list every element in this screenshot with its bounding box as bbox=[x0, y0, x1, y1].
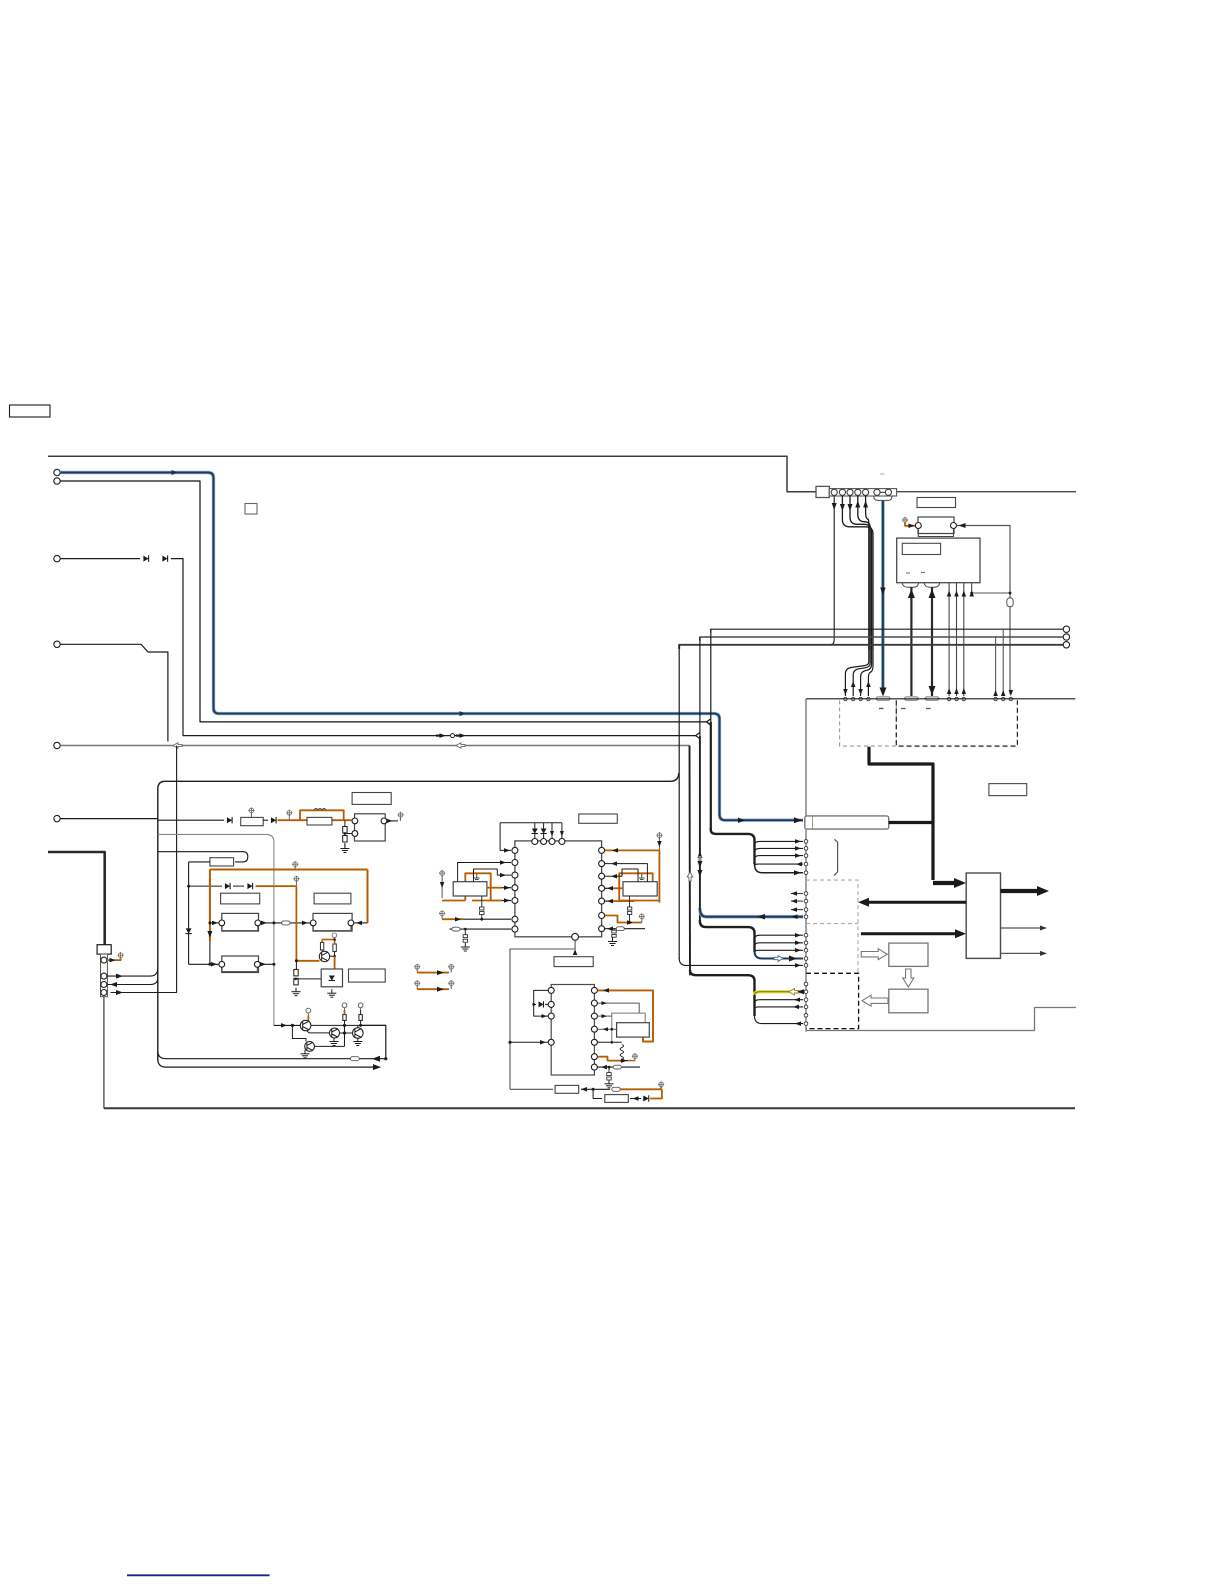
wire CN3 pin3 to block border bbox=[107, 978, 158, 985]
U10 bottom cup pads bbox=[902, 583, 919, 588]
wire R6 right segment bbox=[581, 1088, 610, 1090]
transistor Q1 bbox=[300, 1020, 311, 1031]
capacitor stack below K2 input bbox=[344, 820, 346, 826]
down arrow at bottom of cup2 wire bbox=[929, 686, 936, 695]
opto U5 inner gray loop bbox=[612, 1013, 645, 1043]
IC U10 big box bbox=[897, 538, 980, 583]
wire: fan1 thick bus bbox=[711, 828, 755, 864]
wire: vertical from line B down to pad bbox=[995, 637, 997, 696]
small box SB2 bbox=[889, 989, 928, 1013]
wire: net from J1-5 long horizontal bbox=[60, 745, 689, 747]
power + orange above Q1 bbox=[306, 1008, 311, 1013]
U10 pin wire x=956.5 bbox=[956, 583, 958, 696]
capacitor below U2 bbox=[481, 896, 483, 907]
power above R5 bbox=[358, 1003, 363, 1008]
connector J1 pin 1 bbox=[54, 469, 60, 475]
opto U2 orange loop bbox=[465, 873, 490, 900]
U10 inner label rect bbox=[902, 543, 940, 554]
coil below U5 bbox=[620, 1045, 624, 1060]
bracket right of fan1 bbox=[834, 839, 838, 875]
orange loop left vertical bbox=[209, 870, 211, 942]
title block box top-left bbox=[10, 405, 51, 417]
wire: vertical from line A down to pad bbox=[1002, 629, 1004, 696]
label box above U1 bbox=[579, 814, 618, 823]
fan3 wire 4 bottom bbox=[755, 1016, 804, 1024]
outline arrow out of SB2 left bbox=[862, 995, 888, 1006]
thick wire into U10 cup 2 bbox=[931, 587, 933, 696]
wire: CN2 pin4 from bus bbox=[858, 496, 870, 650]
thick arrow out of U11 right bbox=[1001, 889, 1039, 893]
U4 left link wires pins1-3 bbox=[534, 990, 548, 1016]
Q4 collector stub to rail bbox=[357, 1025, 359, 1027]
orange net U4 pin R1 bbox=[598, 990, 653, 1041]
orange bottom wire into U2 loop bbox=[442, 900, 465, 902]
coil marks on bypass bbox=[314, 808, 326, 810]
resistor RV1 above Q5 bbox=[320, 943, 323, 951]
big arrow into tall box bbox=[933, 881, 957, 885]
ground Q3 bbox=[330, 1038, 339, 1046]
ferrite on bottom wire bbox=[612, 1087, 621, 1091]
resistor R5 vertical bbox=[359, 1015, 362, 1021]
diode D7 on rail bbox=[185, 928, 191, 933]
arrow on CN2 pin4 wire bbox=[855, 501, 860, 508]
label box NET NAME mid-right bbox=[805, 816, 889, 829]
wire: solid top line of dashed block bbox=[806, 698, 1075, 700]
jumper wire JP1 bbox=[414, 964, 420, 970]
thick arrow from DB3 into U11 bbox=[861, 932, 957, 935]
wire: blue branch to spine bbox=[700, 908, 803, 917]
tiny gray dash artifact bbox=[880, 473, 885, 475]
connector circle line B bbox=[1063, 634, 1069, 640]
resistor R7 bbox=[605, 1095, 629, 1103]
wire: left drop into U1 pin L1 bbox=[500, 823, 511, 851]
ground Q4 bbox=[353, 1038, 362, 1046]
arrow on blue net before label box bbox=[738, 817, 745, 823]
pads on dashed box for fan wires bbox=[844, 697, 847, 700]
wire with ferrite to pin L7 bbox=[449, 928, 511, 930]
wire: fan3 thick bus (from J1-5 net) bbox=[690, 970, 755, 1016]
connector J1 pin 5 bbox=[54, 742, 60, 748]
wire: left rail vertical bbox=[188, 862, 190, 964]
power on orange loop top bbox=[292, 861, 298, 867]
diode D8 bbox=[643, 1095, 649, 1101]
wire: vertical 1010 lower part with bead bbox=[1009, 593, 1011, 694]
connector CN2 pin 5 bbox=[863, 489, 869, 495]
label box above K2 bbox=[352, 793, 391, 805]
wire: bus C vertical bbox=[678, 645, 680, 959]
wire: block bottom wire 1 bbox=[158, 1051, 386, 1059]
connector CN2 body bbox=[829, 489, 896, 496]
arrow pair with node on J1-3 net bbox=[440, 733, 447, 738]
power symbol on orange row1 bbox=[286, 810, 292, 816]
diode D1 on J1-3 net bbox=[143, 555, 148, 561]
resistor RV2 above Q5 collector bbox=[333, 944, 336, 952]
power symbol above R1 bbox=[248, 807, 254, 813]
wire: branch from J1-5 down to connector CN3 pin4 bbox=[111, 746, 177, 993]
wire: CN2 pin5 from bus bbox=[866, 496, 869, 650]
orange riser and power bbox=[660, 1087, 662, 1089]
optocoupler K3 label bbox=[221, 893, 260, 904]
power + orange wire to pin L6 bbox=[439, 910, 445, 916]
K3 pins bbox=[219, 920, 225, 926]
thick arrow from U11 into DB3 bbox=[866, 901, 966, 904]
fan3 wire 1 yellow bbox=[755, 992, 804, 995]
U1 bottom pin bbox=[572, 933, 579, 940]
wire: U10 pin 971.7 jog to 1010 vertical bbox=[972, 592, 1010, 594]
dashed box DB2 (black) bbox=[896, 700, 1017, 746]
connector CN2 pin 4 bbox=[855, 489, 861, 495]
pad 1010 on dashed box bbox=[1009, 697, 1012, 700]
spine stub arrows (3) bbox=[791, 893, 803, 895]
wire: block top edge bbox=[158, 773, 679, 789]
wire: K2 output with power bbox=[387, 820, 398, 822]
IC U1 body bbox=[515, 841, 602, 937]
wire: CN2 pin3 down joins bus bbox=[850, 496, 872, 650]
symbols on blue fan2 wire bbox=[774, 956, 783, 962]
outline arrow into SB1 bbox=[861, 949, 887, 960]
orange wire into K1 left pin bbox=[905, 523, 915, 526]
wire K5 out to gray boundary bbox=[260, 963, 274, 965]
wire Q3 to Q4 base bbox=[340, 1032, 353, 1034]
wire K2 pin2 to cap stack bbox=[345, 833, 352, 835]
wire: J1-5 net turns down at right bbox=[689, 746, 692, 976]
U4 left pins bbox=[548, 987, 554, 993]
diode into U4 pin L2 bbox=[534, 1003, 536, 1005]
arrow on CN2 pin2 wire bbox=[840, 504, 845, 511]
capacitor + ground below pin L7 wire bbox=[464, 929, 466, 935]
fan2 wire 1 bbox=[755, 935, 804, 939]
label box right of DZ1 bbox=[349, 969, 386, 982]
wire: R1 to D4 bbox=[263, 819, 268, 821]
symbols on yellow wire bbox=[789, 988, 799, 995]
orange from D8 up to power riser bbox=[650, 1089, 662, 1098]
wire: collector rail through transistors bbox=[311, 1024, 386, 1026]
outline arrow down SB1 to SB2 bbox=[903, 969, 914, 987]
link bar between CN2 pins 6-7 bbox=[880, 491, 885, 493]
arrow on CN3 pin2 wire bbox=[116, 974, 123, 979]
orange path pin R6 to power bbox=[605, 916, 634, 923]
orange loop right vertical bbox=[658, 850, 660, 903]
arrow and pad at bottom of U10 pin wire x=949.1 bbox=[947, 688, 952, 694]
wire U4 pin R7 with ferrite bbox=[598, 1066, 640, 1068]
connector CN2 pin 3 bbox=[847, 489, 853, 495]
vertical rail R4 down to Q2 wire bbox=[344, 1020, 346, 1046]
wire K3 out to K4 bbox=[261, 922, 310, 924]
connector CN3 pin 1 bbox=[101, 957, 107, 963]
relay K1 left pin bbox=[915, 523, 921, 529]
resistor R4 vertical bbox=[343, 1015, 346, 1021]
wire U4 pin R4 bbox=[598, 1028, 617, 1030]
resistor R3 row2 bbox=[210, 858, 234, 866]
arrow on 1010 vertical at dashed box bbox=[1009, 690, 1014, 696]
connector CN2 pin 2 bbox=[839, 489, 845, 495]
wire: row1 net inside block bbox=[158, 819, 224, 821]
arrow on CN3 pin1 wire bbox=[110, 958, 116, 963]
U1 left pins bbox=[512, 847, 518, 853]
wire: line B to connector circle bbox=[700, 637, 1063, 641]
wire: U1 bottom pin down-left bbox=[510, 940, 575, 1089]
mid arrow on blue CN2 net bbox=[880, 588, 886, 596]
wire Q1 base junction down to Q2 bbox=[292, 1025, 306, 1041]
arrow at K1 right pin bbox=[959, 523, 966, 528]
connector CN3 pin 2 bbox=[101, 973, 107, 979]
orange wire to Q5 base bbox=[296, 960, 319, 962]
wire: net from J1-6 to block border bbox=[60, 818, 158, 820]
fan1 wire 2 bbox=[755, 848, 804, 852]
wire Q1 emitter to Q3 base bbox=[307, 1030, 330, 1033]
power symbol left of U2 bbox=[439, 870, 445, 876]
wire: row2 net bbox=[158, 852, 248, 862]
arrow on bottom wire 1 bbox=[372, 1056, 380, 1062]
connector CN2 pin 7 bbox=[885, 489, 891, 495]
arrows on blue branch bbox=[757, 914, 765, 920]
wire with ferrite pin R7 bbox=[605, 928, 645, 930]
arrow up into U10 cup1 bbox=[908, 589, 915, 598]
relay K1 right pin bbox=[951, 523, 957, 529]
spine pins fan2 bbox=[804, 933, 808, 937]
wire: CN2 pin1 down to line C bbox=[831, 496, 834, 645]
diode D2 on J1-3 net bbox=[162, 555, 167, 561]
arrow on CN2 pin3 wire bbox=[848, 504, 853, 511]
fan2 wire 2 bbox=[755, 943, 804, 946]
wire: bus A vertical (line A left end down) bbox=[710, 629, 712, 722]
IC U4 body bbox=[551, 985, 594, 1076]
arrow glyphs on bus B bbox=[697, 851, 702, 858]
K4 bypass wire under body bbox=[313, 926, 351, 931]
arrow on CN2 pin5 wire bbox=[863, 501, 868, 508]
orange step U4 pin R6 bbox=[598, 1057, 621, 1061]
U4 right pins bbox=[591, 987, 597, 993]
wire rail into K5 bbox=[189, 963, 219, 965]
wire Q2 collector to vertical rail bbox=[314, 1045, 344, 1047]
wire: net from J1-3 bbox=[60, 558, 140, 560]
orange loop bottom right bbox=[619, 900, 659, 902]
pad for blue net on dashed box bbox=[876, 697, 890, 700]
orange stub U2 right to pin L4 bbox=[487, 887, 502, 889]
label box left separator bbox=[812, 817, 814, 829]
transistor Q5 bbox=[319, 951, 329, 961]
tiny ground inside U3 top bbox=[639, 874, 645, 880]
fan3 wire 2 bbox=[755, 1000, 804, 1003]
wire: line A to connector circle bbox=[711, 629, 1063, 633]
orange wire to power riser bbox=[621, 1088, 662, 1090]
orange stub to pin R4 bbox=[612, 887, 623, 889]
resistor R1 row1 bbox=[241, 817, 264, 825]
label box far top right bbox=[989, 784, 1027, 796]
bracket under CN2 pins 6-7 bbox=[874, 496, 892, 500]
ground under capacitor stack bbox=[340, 845, 349, 853]
ground under DZ1 bbox=[327, 989, 336, 997]
connector CN2 pin 1 bbox=[831, 489, 837, 495]
diode box DZ1 bbox=[321, 969, 342, 987]
wire: riser from bottom wire 1 to Q4 collector bbox=[362, 1025, 386, 1058]
wire: bus B vertical bbox=[699, 637, 701, 736]
orange loop right vertical bbox=[367, 870, 369, 923]
wire U4 pin R2 to loop bbox=[598, 1003, 640, 1013]
thick link from DB1 down-right to label box line bbox=[869, 747, 933, 880]
arrow on blue net at label box bbox=[794, 817, 802, 823]
arrow on blue net top segment bbox=[172, 470, 179, 475]
dashed box DB4 black bbox=[806, 973, 859, 1028]
orange bypass loop over R2 bbox=[300, 810, 344, 820]
U10 pin wire x=949.1 bbox=[948, 583, 950, 696]
U10 pin wire x=963.8 bbox=[963, 583, 965, 696]
wire: bus C to spine bbox=[679, 958, 803, 965]
label box above relay K1 bbox=[917, 498, 956, 508]
node: small square reference box bbox=[245, 504, 257, 515]
resistor R6 bbox=[555, 1085, 579, 1093]
fan2 wire 3 bbox=[755, 950, 804, 953]
rail branch with diodes D5 D6 bbox=[187, 885, 190, 888]
orange stub to pin R5 bbox=[612, 900, 634, 902]
wire: spine bottom gray outline bbox=[806, 1008, 1076, 1031]
orange top bar with power bbox=[322, 939, 335, 941]
diode D4 row1 bbox=[271, 817, 276, 823]
wire: gray boundary into Q1 base bbox=[274, 1024, 301, 1026]
connector CN3 body strip bbox=[101, 954, 108, 997]
IC U11 tall box bbox=[966, 873, 1000, 958]
K5 pins bbox=[219, 961, 225, 967]
wire U4 pin R5 to coil bbox=[598, 1041, 622, 1043]
spine pins fan3 bbox=[804, 982, 808, 986]
ferrite bead on 1010 vertical bbox=[1007, 598, 1013, 607]
power symbol at CN3 pin1 bbox=[118, 952, 124, 958]
arrow on K1 input bbox=[909, 524, 915, 529]
wire: K1 right pin to vertical bbox=[957, 526, 1010, 594]
wire below orange corner with caps bbox=[295, 961, 297, 970]
orange wire Q5 collector to zener box bbox=[330, 955, 335, 957]
wire orange right vertical into K4 right pin bbox=[354, 922, 368, 924]
dashed box DB1 (gray) bbox=[840, 700, 897, 746]
branch to K3 left pin bbox=[208, 921, 211, 924]
U1 top pins bbox=[532, 839, 538, 845]
orange big loop top bbox=[210, 869, 368, 871]
wire: block left edge bbox=[157, 789, 159, 1061]
wire: fan2 thick bus bbox=[700, 920, 755, 952]
wire: R3 to rail bbox=[189, 861, 210, 863]
wire: top line after connector CN2 bbox=[897, 491, 1076, 493]
wire: block bottom wire 2 bbox=[158, 1059, 374, 1067]
capacitor below U3 bbox=[629, 896, 631, 907]
wire CN3 pin2 to block border bbox=[107, 968, 158, 976]
wire: orange left vertical continues black to A2 bbox=[209, 941, 211, 964]
thick wire into U10 cup 1 bbox=[910, 587, 912, 696]
spine pins fan1 bbox=[804, 840, 808, 844]
optocoupler K4 body bbox=[313, 913, 352, 931]
wire: spine vertical board edge bbox=[805, 699, 807, 1032]
fan1 wire 3 bbox=[755, 856, 804, 859]
ground under caps bbox=[292, 988, 301, 996]
capacitor + ground below pin R7 wire bbox=[613, 929, 615, 931]
orange wire U1 pin R1 from right bbox=[605, 849, 659, 851]
orange vertical from D6 branch down to Q5 bbox=[295, 886, 297, 961]
zener glyphs on top pin wires bbox=[532, 829, 538, 834]
wire U2 top-left up and to pin L2 bbox=[458, 863, 511, 882]
pad for cup1 wire on dashed box bbox=[905, 697, 919, 700]
wire: blue branch to spine (halo) bbox=[700, 908, 803, 917]
wire: top boundary line bbox=[48, 456, 816, 492]
tiny labels in dashed boxes bbox=[879, 708, 884, 710]
power + orange above R4 bbox=[342, 1003, 347, 1008]
opto U3 body bbox=[623, 882, 657, 896]
arrow on CN3 pin4 wire bbox=[116, 990, 123, 995]
wire U3 top2 to pin R3 bbox=[605, 869, 638, 882]
bottom blue title underline bbox=[127, 1574, 270, 1576]
big arrow on blue CN2 net bbox=[880, 688, 887, 697]
arrows down into top pins bbox=[550, 831, 554, 837]
dashed box DB3 light gray bbox=[806, 880, 858, 973]
ground Q2 bbox=[301, 1050, 310, 1058]
diode D3 row1 bbox=[227, 817, 232, 823]
wire: blue highlighted net from J1-1 bbox=[60, 473, 803, 821]
wire: blue net from CN2 pins 6-7 down (halo) bbox=[881, 500, 885, 689]
small box SB1 bbox=[889, 943, 928, 966]
connector CN3 pin 4 bbox=[101, 990, 107, 996]
power above right orange loop bbox=[656, 832, 662, 838]
orange wire row1 to relay K2 bbox=[278, 819, 308, 821]
wire: blue net from CN2 pins 6-7 down bbox=[882, 500, 884, 689]
wire: net from J1-4 with jog bbox=[60, 644, 168, 741]
fan1 wire 4 bbox=[755, 864, 804, 866]
connector J1 pin 2 bbox=[54, 478, 60, 484]
arrow at pin R1 bbox=[603, 988, 609, 993]
fan1 wire 5 bbox=[755, 864, 804, 873]
transistor Q4 bbox=[353, 1028, 364, 1039]
wire: riser bottom to R6 bbox=[510, 1088, 553, 1090]
connector J1 pin 3 bbox=[54, 555, 60, 561]
U10 tiny pin labels bbox=[906, 572, 910, 574]
arrow and pad at bottom of U10 pin wire x=963.8 bbox=[962, 688, 967, 694]
transistor Q3 bbox=[330, 1028, 340, 1038]
arrow on CN2 pin1 wire bbox=[832, 503, 837, 510]
wire cap stack to zener box bbox=[296, 978, 327, 980]
capacitor + ground below pin R7 bbox=[608, 1067, 610, 1073]
arrow on blue net horizontal segment bbox=[460, 711, 467, 716]
opto U3 orange loop bbox=[619, 873, 653, 900]
orange wire from D6 to down loop bbox=[256, 885, 297, 887]
open arrow on J1-5 net left bbox=[173, 743, 182, 749]
opto U5 body bbox=[617, 1023, 650, 1037]
power at orange corner bbox=[293, 876, 299, 882]
jumper wire JP2 bbox=[414, 980, 420, 986]
arrow into R6 right bbox=[581, 1087, 587, 1092]
arrow and pad at bottom of U10 pin wire x=956.5 bbox=[954, 688, 959, 694]
optocoupler K4 label bbox=[314, 893, 351, 904]
open arrow on J1-5 net right bbox=[456, 743, 465, 749]
wire: CN3 ground lead down to bottom bus bbox=[103, 997, 105, 1109]
branch to R7 bbox=[593, 1089, 602, 1098]
orange stub loop to pin L5 bbox=[491, 900, 502, 902]
wire into U4 pin L4 from riser bbox=[510, 1041, 548, 1043]
fan3 wire 3 bbox=[755, 1007, 804, 1010]
opto U2 body bbox=[453, 882, 487, 896]
U10 pin wire x=971.7 bbox=[971, 583, 973, 593]
wire: long bottom bus line bbox=[104, 1107, 1075, 1109]
junction chamfer J1-2 to bus A bbox=[707, 722, 711, 725]
wire: thick feed line to connector CN3 bbox=[48, 852, 105, 945]
wire R5 down to collector rail bbox=[360, 1020, 362, 1025]
fan2 wire 4 blue bbox=[755, 951, 804, 959]
relay K2 pins bbox=[352, 818, 358, 824]
arrow up into U10 cup2 bbox=[929, 589, 936, 598]
wire: CN2 bundle fan out to pads bbox=[845, 650, 868, 696]
thick wire label box to vertical bbox=[889, 821, 933, 824]
wire U4 pin R3 bbox=[598, 1015, 612, 1017]
relay K2 body bbox=[355, 814, 386, 841]
wire U3 top to pin R2 bbox=[605, 864, 647, 882]
connector circle line C bbox=[1063, 642, 1069, 648]
label box below U1 bbox=[554, 957, 593, 967]
